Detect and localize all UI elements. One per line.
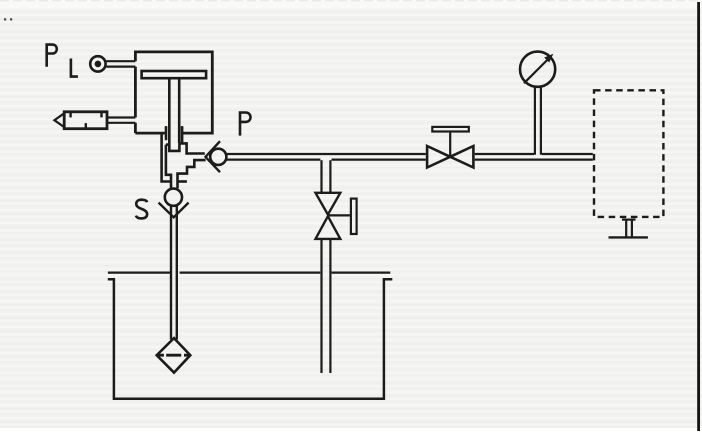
piston xyxy=(142,71,207,78)
check valve P circle xyxy=(210,149,226,165)
label S xyxy=(136,200,147,219)
branch pipe to drain valve xyxy=(322,160,331,193)
stand top bar xyxy=(622,219,636,221)
drain pipe into tank xyxy=(322,239,331,373)
main pressure pipe top line xyxy=(226,153,592,155)
suction filter strainer xyxy=(157,338,191,373)
port PL center dot xyxy=(95,61,102,68)
isolation valve stem xyxy=(449,133,451,157)
channel P bottom and lower staircase to stub right wall xyxy=(178,160,206,188)
actuator arrow tip xyxy=(54,113,64,127)
stand legs under box xyxy=(626,219,632,238)
label PL xyxy=(47,45,78,77)
check valve S seat xyxy=(159,203,189,218)
drain valve handle bar xyxy=(351,199,357,234)
filter element dashes xyxy=(158,354,190,357)
gland wall left xyxy=(165,126,168,140)
tank reservoir walls xyxy=(108,279,393,399)
check valve S circle xyxy=(165,189,182,206)
pressure gauge circle xyxy=(520,52,555,87)
bottom right edge xyxy=(178,180,187,183)
pipe from port PL to pump cylinder xyxy=(106,61,135,66)
drain valve lower triangle xyxy=(316,216,341,239)
isolation valve handle bar xyxy=(432,127,469,132)
gauge needle arrowhead xyxy=(544,54,553,63)
stand base xyxy=(609,236,648,238)
drain valve handle stem xyxy=(328,214,350,216)
tank rim line xyxy=(108,272,390,274)
manual actuator (hand operated) xyxy=(64,112,107,129)
jog right, stair outer, channel P top xyxy=(179,143,205,153)
port PL quick-coupling circle xyxy=(90,56,105,71)
actuator ticks xyxy=(71,112,102,129)
outer left wall and bottom edge xyxy=(162,133,171,181)
piston rod left wall and chamber bottom xyxy=(169,78,179,151)
suction pipe to filter xyxy=(171,205,177,340)
main pressure pipe bottom line xyxy=(226,159,592,161)
isolation valve left triangle xyxy=(427,146,450,168)
gauge needle xyxy=(524,57,551,84)
label P xyxy=(240,113,251,136)
hand pump cylinder body xyxy=(135,52,212,133)
check valve P seat xyxy=(206,141,221,172)
pipe from actuator to cylinder xyxy=(107,118,135,123)
isolation valve right triangle xyxy=(450,146,473,168)
gland wall right xyxy=(181,126,184,143)
device under test dashed box xyxy=(594,90,663,217)
drain valve upper triangle xyxy=(316,193,341,215)
jog left xyxy=(166,143,169,146)
inner left wall, step, stub left wall xyxy=(166,145,171,189)
gauge stem pipe xyxy=(535,86,541,154)
piston rod right wall xyxy=(178,78,181,143)
